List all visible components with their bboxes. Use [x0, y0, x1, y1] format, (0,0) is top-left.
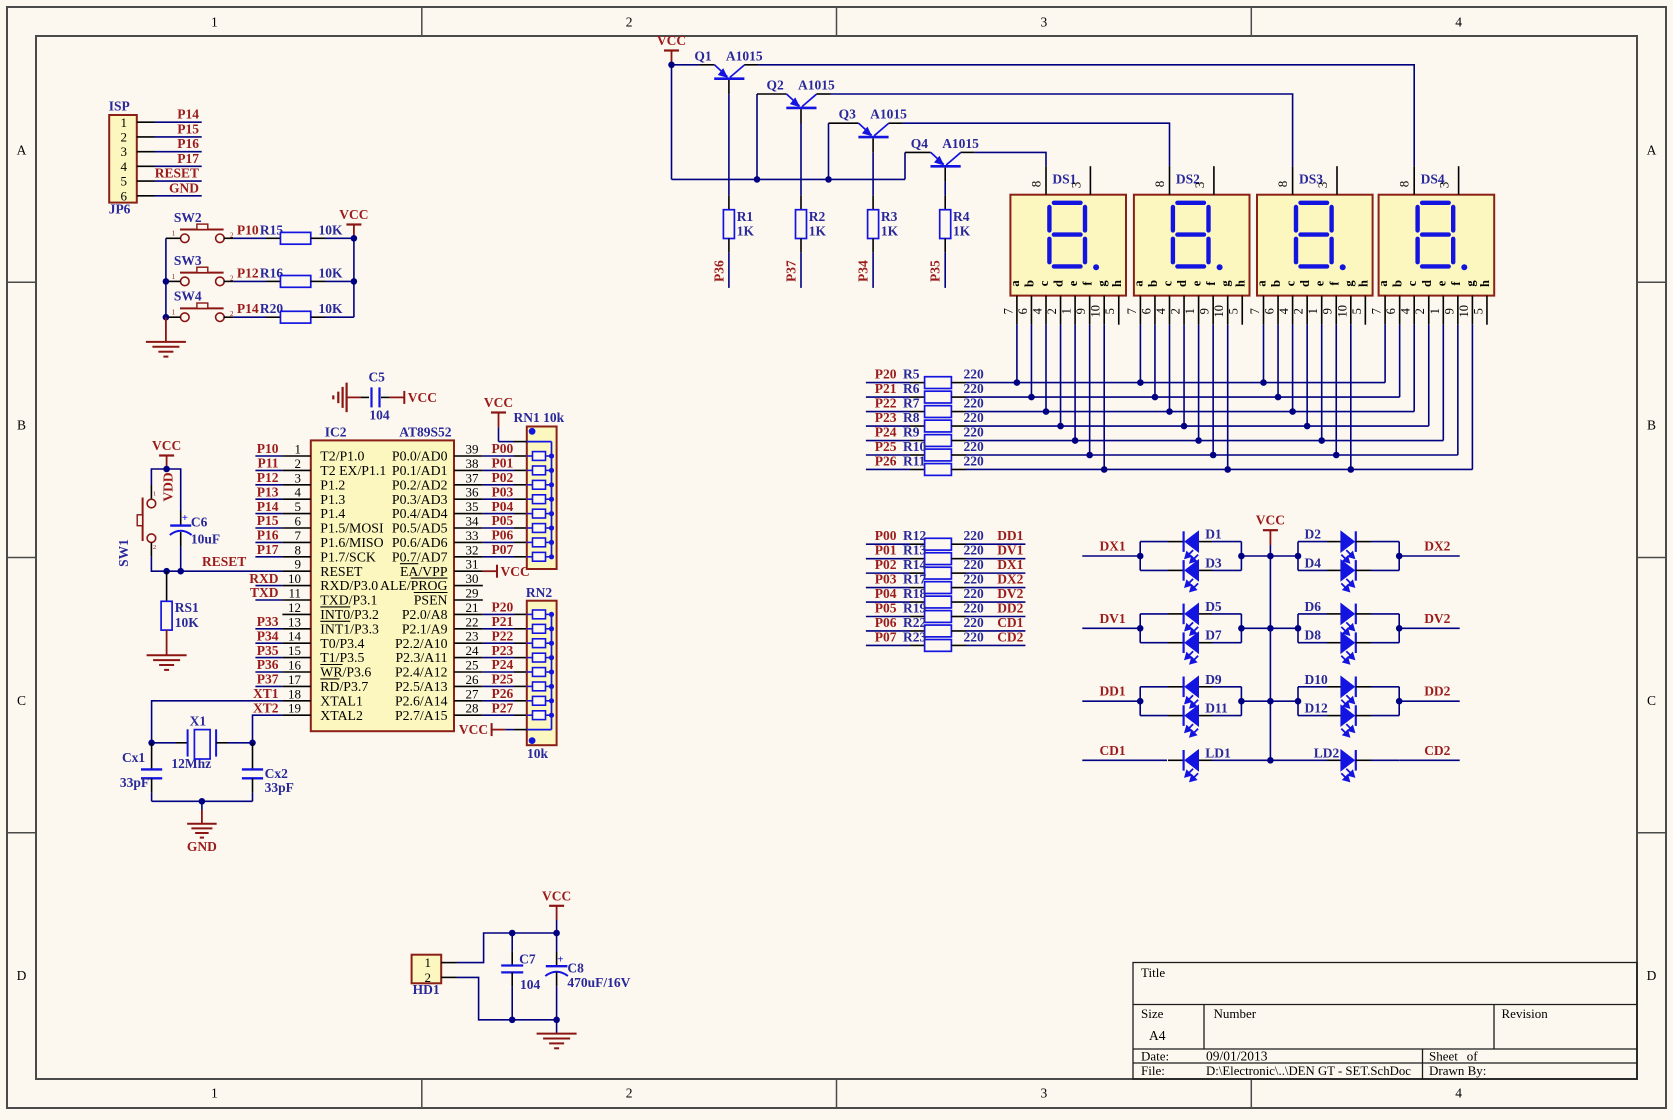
svg-text:P20: P20 [492, 600, 514, 615]
svg-text:470uF/16V: 470uF/16V [567, 975, 630, 990]
svg-text:4: 4 [121, 159, 128, 174]
svg-text:C8: C8 [567, 961, 584, 976]
svg-text:2: 2 [153, 544, 156, 551]
net P04 wire IC2 to RN [483, 513, 514, 515]
svg-text:P0.0/AD0: P0.0/AD0 [392, 449, 448, 464]
resistor R14 220 net P02 to DX1 [866, 572, 910, 574]
svg-text:P0.1/AD1: P0.1/AD1 [392, 463, 448, 478]
wire DS2.d down to segment row [1183, 325, 1185, 426]
svg-text:P23: P23 [492, 643, 514, 658]
svg-text:T2/P1.0: T2/P1.0 [320, 449, 364, 464]
resistor RS1 10K [166, 571, 168, 601]
svg-text:P15: P15 [257, 513, 279, 528]
net P35 wire below R4 [944, 239, 946, 253]
net DV1 wire [1082, 627, 1140, 629]
svg-text:Q3: Q3 [839, 107, 857, 122]
svg-text:P00: P00 [492, 441, 514, 456]
IC2 pin 18 XTAL1 [282, 700, 310, 702]
svg-text:ALE/PROG: ALE/PROG [380, 578, 447, 593]
svg-text:TXD/P3.1: TXD/P3.1 [320, 593, 377, 608]
wire DS3.b down to segment row [1277, 325, 1279, 397]
wire DS1.a down to segment row [1016, 325, 1018, 383]
svg-text:JP6: JP6 [109, 202, 131, 217]
svg-text:DD1: DD1 [1099, 684, 1125, 699]
IC2 pin 9 RESET [282, 570, 310, 572]
svg-text:220: 220 [964, 615, 985, 630]
wire segment row P21 to displays [966, 396, 1400, 398]
resistor R20 10K [266, 316, 281, 318]
svg-text:R22: R22 [903, 615, 926, 630]
svg-text:g: g [1342, 280, 1356, 287]
svg-text:A4: A4 [1149, 1028, 1166, 1043]
svg-text:DV1: DV1 [1099, 611, 1125, 626]
svg-text:18: 18 [288, 686, 301, 701]
IC2 pin 16 WR/P3.6 [282, 671, 310, 673]
svg-text:A: A [17, 142, 27, 157]
resistor R8 220 / net P23 [866, 425, 910, 427]
IC2 pin 5 P1.4 [282, 513, 310, 515]
RN1 element 6 [533, 524, 546, 533]
svg-text:Q1: Q1 [694, 48, 712, 63]
svg-text:C7: C7 [519, 952, 536, 967]
svg-text:P15: P15 [177, 121, 199, 136]
wire C6 to RESET row [180, 532, 182, 546]
svg-text:d: d [1052, 280, 1066, 287]
svg-text:SW4: SW4 [174, 289, 202, 304]
svg-text:R18: R18 [903, 586, 926, 601]
net P17 wire at IC2 pin 8 [255, 556, 282, 558]
svg-text:1: 1 [211, 15, 218, 30]
wire base Q4 [944, 168, 946, 182]
svg-text:38: 38 [466, 456, 479, 471]
svg-text:XTAL1: XTAL1 [320, 693, 363, 708]
wire LED pair to center [1240, 542, 1242, 571]
svg-text:c: c [1037, 280, 1051, 286]
svg-text:P16: P16 [257, 528, 279, 543]
op-amp-style IC body U IC2 AT89S52 [311, 440, 454, 731]
svg-text:SW2: SW2 [174, 210, 202, 225]
svg-text:220: 220 [964, 425, 985, 440]
svg-text:R11: R11 [903, 453, 926, 468]
RN1 element 1 [533, 452, 546, 461]
IC2 pin 22 P2.1/A9 [454, 628, 483, 630]
svg-text:220: 220 [964, 543, 985, 558]
svg-text:CD2: CD2 [1424, 743, 1450, 758]
wire segment row P26 to displays [966, 468, 1472, 470]
node DV1 riser [1139, 614, 1141, 643]
wire DS1.g down to segment row [1103, 325, 1105, 470]
net TXD wire at IC2 pin 11 [255, 599, 282, 601]
svg-text:1: 1 [172, 273, 176, 281]
svg-text:2: 2 [295, 456, 302, 471]
resistor R15 10K [266, 237, 281, 239]
svg-text:1: 1 [1428, 308, 1442, 314]
net P26 wire IC2 to RN [483, 700, 514, 702]
wire DS3.g down to segment row [1350, 325, 1352, 470]
svg-text:1K: 1K [737, 223, 755, 238]
net P33 wire at IC2 pin 13 [255, 628, 282, 630]
capacitor C8 470uF/16V (polarized) [553, 930, 560, 937]
svg-text:P14: P14 [257, 499, 279, 514]
node right riser [1297, 687, 1299, 716]
ground symbol left of C5 (rotated) [332, 395, 334, 399]
svg-text:P0.7/AD7: P0.7/AD7 [392, 549, 448, 564]
IC2 pin 29 PSEN [454, 599, 483, 601]
svg-text:A1015: A1015 [942, 136, 979, 151]
svg-text:DD2: DD2 [1424, 684, 1450, 699]
svg-text:RS1: RS1 [175, 600, 199, 615]
net P16 wire at IC2 pin 7 [255, 541, 282, 543]
svg-text:5: 5 [1227, 308, 1241, 314]
svg-text:220: 220 [964, 439, 985, 454]
VCC power port at IC2 pin 31 [483, 570, 497, 572]
svg-text:220: 220 [964, 410, 985, 425]
wire DS2.b down to segment row [1154, 325, 1156, 397]
svg-text:P2.6/A14: P2.6/A14 [395, 693, 448, 708]
svg-text:PSEN: PSEN [414, 593, 448, 608]
resistor R18 220 net P04 to DV2 [866, 601, 910, 603]
svg-text:WR/P3.6: WR/P3.6 [320, 665, 371, 680]
LED D7 [1140, 642, 1168, 644]
LED D4 [1298, 569, 1327, 571]
IC2 pin 37 P0.2/AD2 [454, 484, 483, 486]
svg-text:VCC: VCC [484, 395, 513, 410]
svg-text:35: 35 [466, 499, 479, 514]
svg-text:TXD: TXD [250, 585, 279, 600]
svg-text:a: a [1008, 280, 1022, 287]
wire segment row P23 to displays [966, 425, 1429, 427]
svg-text:GND: GND [187, 839, 217, 854]
svg-text:220: 220 [964, 586, 985, 601]
svg-text:R10: R10 [903, 439, 926, 454]
resistor R13 220 net P01 to DV1 [866, 558, 910, 560]
ground symbol GND below crystal [187, 823, 217, 825]
svg-text:7: 7 [1370, 308, 1384, 314]
svg-text:P23: P23 [875, 410, 897, 425]
svg-text:RXD: RXD [249, 571, 278, 586]
svg-text:GND: GND [169, 180, 199, 195]
RN1 element 4 [533, 495, 546, 504]
svg-text:LD1: LD1 [1205, 745, 1231, 760]
title block [1133, 963, 1637, 1080]
resistor R12 220 net P00 to DD1 [866, 543, 910, 545]
svg-text:1: 1 [121, 115, 128, 130]
LED D9 [1140, 686, 1168, 688]
svg-text:23: 23 [466, 629, 479, 644]
svg-text:RXD/P3.0: RXD/P3.0 [320, 578, 378, 593]
svg-text:220: 220 [964, 601, 985, 616]
svg-text:P05: P05 [875, 601, 897, 616]
svg-text:10K: 10K [319, 301, 344, 316]
svg-text:c: c [1284, 280, 1298, 286]
RN1 element 8 [533, 552, 546, 561]
resistor R11 220 / net P26 [866, 468, 910, 470]
7-segment display DS4 [1379, 195, 1495, 296]
wire XT2 from IC pin19 [253, 715, 283, 743]
svg-text:DD1: DD1 [997, 528, 1023, 543]
svg-text:R12: R12 [903, 528, 926, 543]
svg-text:4: 4 [1455, 15, 1462, 30]
svg-text:1: 1 [153, 491, 156, 498]
LED D8 [1298, 642, 1327, 644]
svg-text:7: 7 [1001, 308, 1015, 314]
svg-text:P1.2: P1.2 [320, 477, 345, 492]
svg-text:DD2: DD2 [997, 601, 1023, 616]
net P20 wire IC2 to RN [483, 613, 514, 615]
resistor network RN1 10k [527, 427, 557, 570]
svg-text:P1.4: P1.4 [320, 506, 345, 521]
capacitor Cx2 33pF [252, 743, 254, 769]
svg-text:1: 1 [1060, 308, 1074, 314]
svg-text:2: 2 [1292, 308, 1306, 314]
ground symbol below SW4 [165, 317, 167, 342]
IC2 pin 23 P2.2/A10 [454, 642, 483, 644]
svg-text:3: 3 [121, 144, 128, 159]
svg-text:5: 5 [1471, 308, 1485, 314]
svg-text:P11: P11 [257, 456, 278, 471]
node right riser [1297, 614, 1299, 643]
wire SW4 left to ground rail [166, 316, 181, 318]
net P10 wire at IC2 pin 1 [255, 455, 282, 457]
svg-text:RESET: RESET [202, 554, 246, 569]
svg-text:P1.3: P1.3 [320, 492, 345, 507]
svg-text:R4: R4 [953, 209, 970, 224]
capacitor C5 plates [370, 387, 372, 407]
svg-text:D: D [1647, 968, 1657, 983]
svg-text:d: d [1175, 280, 1189, 287]
svg-text:31: 31 [466, 557, 479, 572]
wire base Q2 [800, 109, 802, 123]
DS1 digit segments [1049, 203, 1085, 267]
svg-text:2: 2 [1045, 308, 1059, 314]
wire VCC node to SW1 branch [151, 469, 166, 485]
svg-text:P05: P05 [492, 513, 514, 528]
DS1 pin 8 stub [1045, 166, 1047, 195]
svg-text:R5: R5 [903, 367, 920, 382]
DS3 pin 8 stub [1292, 166, 1294, 195]
wire DS4.g down to segment row [1471, 325, 1473, 470]
svg-text:C6: C6 [191, 515, 208, 530]
svg-text:R6: R6 [903, 381, 920, 396]
resistor R7 220 / net P22 [866, 411, 910, 413]
svg-text:R7: R7 [903, 396, 920, 411]
svg-text:8: 8 [1397, 181, 1412, 188]
wire DS4.a down to segment row [1384, 325, 1386, 383]
svg-text:D10: D10 [1305, 672, 1328, 687]
IC2 pin 31 EA/VPP [454, 570, 483, 572]
net P06 wire IC2 to RN [483, 541, 514, 543]
svg-text:1: 1 [425, 955, 432, 970]
7-segment display DS1 [1010, 195, 1126, 296]
net P35 wire at IC2 pin 15 [255, 657, 282, 659]
wire R15 to VCC rail [325, 237, 354, 239]
ground symbol below C8 [556, 1020, 558, 1034]
svg-text:10: 10 [1212, 305, 1226, 318]
net P01 wire IC2 to RN [483, 469, 514, 471]
7-segment display DS3 [1257, 195, 1373, 296]
svg-text:2: 2 [626, 1086, 633, 1101]
svg-text:33: 33 [466, 528, 479, 543]
svg-text:C5: C5 [368, 370, 385, 385]
svg-text:39: 39 [466, 442, 479, 457]
svg-text:P33: P33 [257, 614, 279, 629]
svg-text:P00: P00 [875, 528, 897, 543]
DS1 decimal point [1093, 264, 1099, 270]
svg-text:EA/VPP: EA/VPP [400, 564, 448, 579]
svg-text:T0/P3.4: T0/P3.4 [320, 636, 364, 651]
RN2 element 6 [533, 682, 546, 691]
svg-text:220: 220 [964, 557, 985, 572]
IC2 pin 27 P2.6/A14 [454, 700, 483, 702]
net P34 wire at IC2 pin 14 [255, 642, 282, 644]
wire DS3.c down to segment row [1292, 325, 1294, 412]
net P27 wire IC2 to RN [483, 714, 514, 716]
svg-text:25: 25 [466, 658, 479, 673]
svg-text:P04: P04 [875, 586, 897, 601]
resistor R3 1K [868, 210, 879, 239]
svg-text:P10: P10 [257, 441, 279, 456]
svg-text:P2.2/A10: P2.2/A10 [395, 636, 448, 651]
svg-text:8: 8 [1275, 181, 1290, 188]
svg-text:P14: P14 [177, 107, 199, 122]
DS4 decimal point [1461, 264, 1467, 270]
wire SW4 to resistor R20 / net P14 [224, 316, 234, 318]
net VDD branch wire [167, 469, 181, 511]
svg-text:DX2: DX2 [1424, 539, 1450, 554]
svg-text:D5: D5 [1205, 599, 1222, 614]
svg-text:10: 10 [1457, 305, 1471, 318]
net DV2 wire [1398, 614, 1400, 643]
wire VCC to RN1 common [498, 427, 500, 441]
wire DS2.c down to segment row [1169, 325, 1171, 412]
IC2 pin 15 T1/P3.5 [282, 657, 310, 659]
svg-text:P22: P22 [492, 628, 514, 643]
net P11 wire at IC2 pin 2 [255, 469, 282, 471]
svg-text:3: 3 [1192, 182, 1207, 189]
svg-text:2: 2 [1413, 308, 1427, 314]
svg-text:e: e [1066, 280, 1080, 286]
svg-text:14: 14 [288, 629, 302, 644]
svg-text:P25: P25 [492, 672, 514, 687]
svg-text:e: e [1190, 280, 1204, 286]
IC2 pin 25 P2.4/A12 [454, 671, 483, 673]
IC2 pin 33 P0.6/AD6 [454, 541, 483, 543]
svg-text:b: b [1022, 280, 1036, 287]
LED D6 [1298, 613, 1327, 615]
resistor R1 1K [723, 210, 734, 239]
RN2 element 2 [533, 624, 546, 633]
net P23 wire IC2 to RN [483, 657, 514, 659]
svg-text:P34: P34 [257, 628, 279, 643]
svg-text:D8: D8 [1305, 628, 1322, 643]
svg-text:29: 29 [466, 586, 479, 601]
resistor R16 10K [266, 280, 281, 282]
svg-text:P36: P36 [711, 260, 726, 282]
LED LD2 / net CD2 wire [1270, 759, 1327, 761]
RN2 element 3 [533, 639, 546, 648]
svg-text:R14: R14 [903, 557, 926, 572]
svg-text:P03: P03 [875, 572, 897, 587]
svg-text:3: 3 [1315, 182, 1330, 189]
svg-text:P02: P02 [875, 557, 897, 572]
svg-text:LD2: LD2 [1314, 745, 1340, 760]
svg-text:d: d [1420, 280, 1434, 287]
svg-text:P21: P21 [875, 381, 897, 396]
svg-text:26: 26 [466, 672, 480, 687]
svg-text:DX1: DX1 [1099, 539, 1125, 554]
svg-text:9: 9 [1321, 308, 1335, 314]
svg-text:Number: Number [1214, 1006, 1257, 1021]
svg-text:D1: D1 [1205, 527, 1222, 542]
svg-text:7: 7 [1125, 308, 1139, 314]
wire R16 to VCC rail [325, 280, 354, 282]
connector HD1 [412, 955, 442, 984]
svg-text:Cx1: Cx1 [122, 750, 145, 765]
net P15 wire at IC2 pin 6 [255, 527, 282, 529]
svg-text:B: B [17, 418, 26, 433]
resistor network RN2 10k [527, 601, 557, 746]
svg-text:6: 6 [1139, 308, 1153, 314]
svg-text:RESET: RESET [155, 166, 199, 181]
svg-text:P06: P06 [875, 615, 897, 630]
resistor R9 220 / net P24 [866, 440, 910, 442]
net P00 wire IC2 to RN [483, 455, 514, 457]
wire DS4.b down to segment row [1399, 325, 1401, 397]
svg-text:P01: P01 [492, 456, 514, 471]
svg-text:b: b [1391, 280, 1405, 287]
svg-text:P17: P17 [257, 542, 279, 557]
DS2 pin 8 stub [1169, 166, 1171, 195]
svg-text:3: 3 [1041, 15, 1048, 30]
svg-text:P0.5/AD5: P0.5/AD5 [392, 521, 448, 536]
svg-text:10K: 10K [319, 265, 344, 280]
svg-text:2: 2 [1169, 308, 1183, 314]
svg-text:27: 27 [466, 686, 480, 701]
svg-text:1: 1 [172, 230, 176, 238]
IC2 pin 4 P1.3 [282, 498, 310, 500]
svg-text:d: d [1298, 280, 1312, 287]
svg-text:17: 17 [288, 672, 302, 687]
svg-text:09/01/2013: 09/01/2013 [1206, 1049, 1268, 1064]
LED D5 [1140, 613, 1168, 615]
svg-text:220: 220 [964, 367, 985, 382]
IC2 pin 39 P0.0/AD0 [454, 455, 483, 457]
ground symbol below RS1 [147, 654, 187, 656]
svg-text:SW1: SW1 [116, 539, 131, 567]
svg-text:A: A [1647, 142, 1657, 157]
svg-text:R19: R19 [903, 601, 926, 616]
svg-text:C: C [1647, 693, 1656, 708]
resistor R5 220 / net P20 [866, 382, 910, 384]
svg-text:4: 4 [1455, 1086, 1462, 1101]
svg-text:9: 9 [1198, 308, 1212, 314]
net P25 wire IC2 to RN [483, 685, 514, 687]
svg-text:c: c [1405, 280, 1419, 286]
IC2 pin 10 RXD/P3.0 [282, 585, 310, 587]
net P37 wire below R2 [800, 239, 802, 253]
node RESET junctions [163, 568, 170, 575]
svg-text:+: + [182, 512, 188, 524]
IC2 pin 13 INT1/P3.3 [282, 628, 310, 630]
IC2 pin 28 P2.7/A15 [454, 714, 483, 716]
IC2 pin 24 P2.3/A11 [454, 657, 483, 659]
node DX1 riser [1139, 542, 1141, 571]
wire DS4.e down to segment row [1442, 325, 1444, 441]
svg-text:Sheet: Sheet [1429, 1049, 1458, 1064]
svg-text:104: 104 [520, 977, 541, 992]
svg-text:Cx2: Cx2 [265, 766, 288, 781]
VCC power port right of C5 [390, 396, 405, 398]
